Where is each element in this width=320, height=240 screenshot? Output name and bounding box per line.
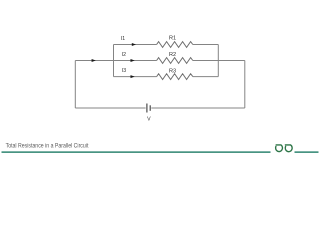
resistor R2 — [157, 58, 193, 64]
svg-text:I1: I1 — [121, 36, 125, 42]
wire right inner bus vertical — [217, 45, 219, 77]
arrow into node (branch 2 feed) — [92, 59, 96, 62]
svg-text:I3: I3 — [122, 68, 126, 74]
svg-text:R3: R3 — [169, 68, 176, 74]
svg-text:R1: R1 — [169, 35, 176, 41]
wire left bus vertical — [113, 45, 115, 77]
wire left outer vertical — [74, 61, 76, 109]
resistor R1 — [157, 42, 193, 48]
logo left G — [276, 145, 283, 152]
wire branch 2 left segment — [75, 60, 156, 62]
logo right G — [285, 145, 292, 152]
resistor R3 — [157, 74, 193, 80]
battery short plate — [149, 105, 151, 111]
svg-text:V: V — [147, 117, 151, 123]
svg-text:I2: I2 — [122, 52, 126, 58]
wire branch 3 right segment — [193, 76, 219, 78]
svg-text:R2: R2 — [169, 52, 176, 58]
arrow I1 — [132, 43, 136, 46]
wire branch 1 right segment — [193, 44, 219, 46]
wire branch 2 right segment — [193, 60, 245, 62]
wire right outer vertical — [244, 61, 246, 109]
wire branch 3 left segment — [114, 76, 157, 78]
svg-text:Total Resistance in a Parallel: Total Resistance in a Parallel Circuit — [6, 143, 89, 150]
arrow I2 — [131, 59, 135, 62]
wire bottom left (to battery) — [75, 107, 145, 109]
footer green rule left — [2, 151, 271, 153]
battery long plate — [146, 104, 148, 113]
wire branch 1 left segment — [114, 44, 157, 46]
wire bottom right (battery to right) — [151, 107, 245, 109]
GeeksforGeeks logo mark — [276, 145, 293, 152]
arrow I3 — [131, 75, 135, 78]
footer green rule right — [295, 151, 319, 153]
